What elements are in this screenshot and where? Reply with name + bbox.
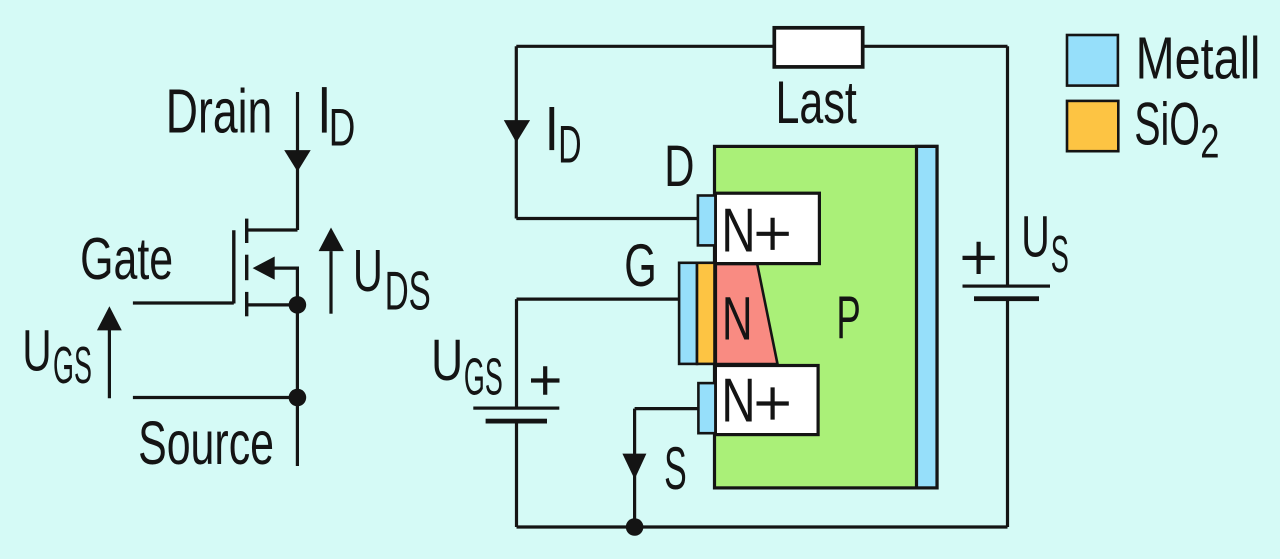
node bottom junction — [626, 518, 644, 536]
label N+ source: plus — [757, 387, 789, 419]
transistor gate bar — [232, 230, 235, 303]
wire drain vertical — [296, 92, 299, 230]
battery U_GS: short plate — [486, 419, 547, 424]
wire drain horizontal to contact — [516, 217, 699, 220]
wire source contact horizontal — [635, 407, 699, 410]
svg-text:Source: Source — [138, 409, 274, 477]
svg-text:2: 2 — [1200, 116, 1219, 169]
wire U_DS arrow shaft — [329, 251, 332, 314]
wire source vertical — [296, 305, 299, 466]
svg-text:Drain: Drain — [166, 78, 272, 147]
N+ drain box — [715, 193, 819, 263]
legend swatch Metall (blue) — [1067, 35, 1118, 86]
label I_D right — [549, 107, 554, 150]
svg-text:DS: DS — [385, 260, 431, 321]
arrowhead I_D right (down) — [504, 120, 530, 143]
svg-text:GS: GS — [464, 347, 503, 405]
svg-text:N: N — [722, 285, 753, 353]
svg-text:S: S — [1051, 225, 1069, 283]
arrowhead S (down) — [622, 454, 646, 480]
transistor channel bar middle (body) — [245, 255, 248, 281]
battery U_S: short plate — [974, 296, 1039, 301]
svg-text:G: G — [624, 231, 657, 299]
wire top right horizontal from resistor — [863, 45, 1008, 48]
metal strip right (blue) — [917, 146, 938, 488]
wire source reference horizontal — [133, 396, 298, 399]
label I_D left — [322, 87, 327, 133]
wire U_GS arrow shaft — [108, 330, 111, 398]
svg-text:D: D — [558, 116, 581, 175]
label N+ drain: plus — [757, 218, 789, 250]
wire source lead — [247, 303, 298, 306]
wire U_GS battery top lead — [515, 299, 518, 408]
node source-body junction — [289, 296, 307, 314]
battery U_GS: long plate — [473, 407, 559, 410]
N channel region (red trapezoid) — [716, 264, 778, 364]
wire source vertical to bottom — [633, 409, 636, 527]
svg-text:U: U — [22, 319, 51, 384]
legend swatch SiO2 (orange) — [1067, 101, 1118, 151]
drain metal contact (blue) — [698, 196, 716, 246]
wire top left horizontal to resistor — [516, 45, 774, 48]
svg-text:Last: Last — [776, 69, 858, 136]
svg-text:D: D — [664, 134, 694, 199]
N+ source box — [715, 366, 818, 435]
svg-text:U: U — [1021, 205, 1049, 270]
svg-text:U: U — [431, 328, 463, 393]
arrowhead U_GS up — [97, 306, 122, 330]
svg-text:Metall: Metall — [1136, 25, 1261, 92]
svg-text:P: P — [836, 284, 860, 351]
wire bottom horizontal — [517, 525, 1008, 528]
svg-text:N: N — [721, 197, 755, 266]
wire U_GS battery bottom lead — [515, 421, 518, 527]
transistor body arrow (points to gate) — [253, 257, 275, 280]
battery U_S: long plate — [963, 285, 1051, 288]
wire gate lead — [133, 301, 234, 304]
svg-text:D: D — [329, 98, 356, 157]
svg-text:SiO: SiO — [1134, 91, 1200, 158]
node source-reference junction — [289, 389, 307, 407]
arrowhead U_DS up — [319, 228, 344, 252]
wire left vertical (drain branch) — [515, 46, 518, 218]
resistor Last — [774, 28, 862, 67]
svg-text:U: U — [353, 238, 383, 304]
wire right vertical top (U_S) — [1006, 46, 1009, 286]
svg-text:S: S — [664, 434, 687, 502]
P substrate (green) — [715, 146, 938, 488]
gate metal strip (blue) — [679, 263, 697, 364]
source metal contact (blue) — [698, 383, 715, 433]
wire gate horizontal — [517, 298, 681, 301]
svg-text:N: N — [721, 366, 755, 435]
wire drain lead horizontal — [247, 228, 298, 231]
arrowhead I_D down — [284, 150, 311, 172]
transistor channel bar bottom (source) — [245, 292, 248, 316]
svg-text:GS: GS — [53, 336, 92, 394]
battery U_GS plus sign — [531, 366, 560, 395]
svg-text:Gate: Gate — [80, 225, 173, 292]
wire right vertical bottom (U_S) — [1006, 299, 1009, 528]
transistor channel bar top (drain) — [245, 219, 248, 243]
wire body connection — [273, 268, 297, 305]
battery U_S plus sign — [963, 242, 995, 274]
gate oxide strip SiO2 (orange) — [697, 263, 715, 364]
